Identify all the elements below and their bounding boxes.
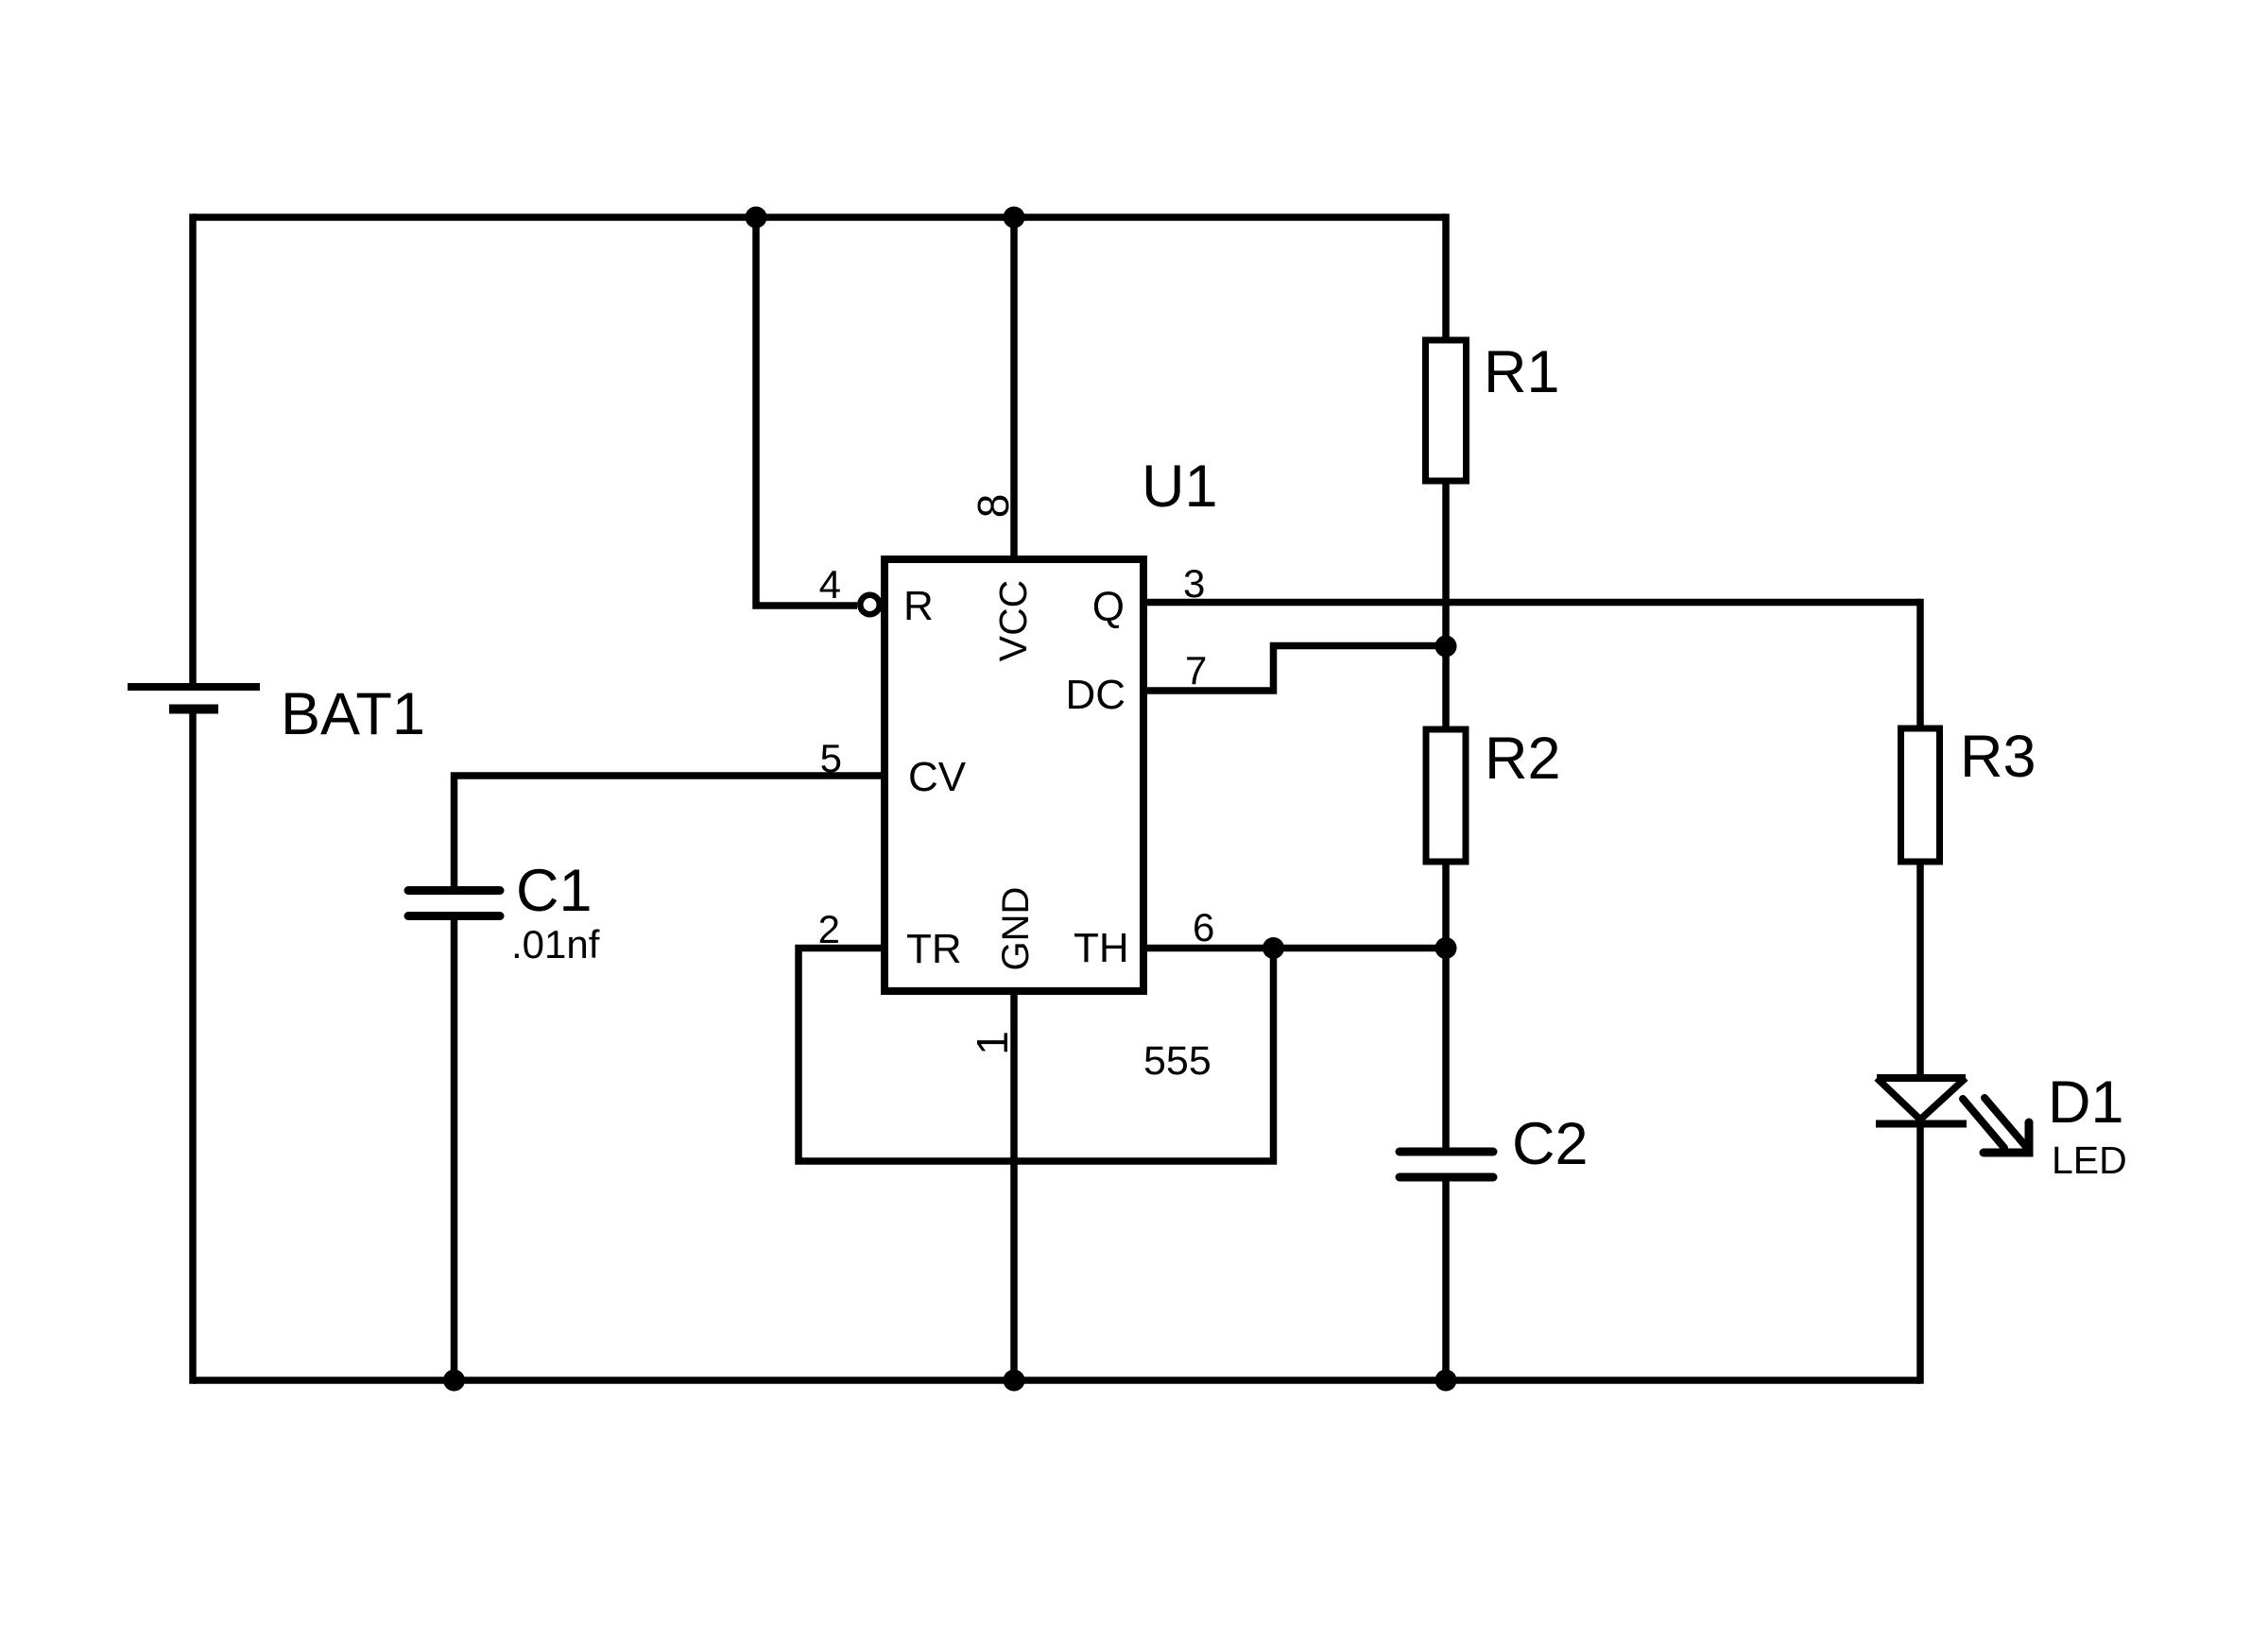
svg-text:C2: C2: [1512, 1111, 1589, 1177]
pin 4 inversion bubble: [860, 595, 879, 614]
svg-text:R3: R3: [1960, 724, 2036, 790]
wire TH node down to C2: [1442, 949, 1450, 1153]
wire Q pin 3 output: [1143, 599, 1920, 607]
wire LED cathode down to ground rail: [1916, 1124, 1924, 1384]
junction C1 / bottom rail: [443, 1370, 465, 1392]
capacitor C1: [408, 891, 500, 916]
wire left branch upper (battery positive): [189, 214, 197, 687]
wire bottom ground rail: [193, 1377, 1920, 1384]
svg-text:GND: GND: [995, 887, 1037, 971]
wire R1 bottom to node: [1442, 481, 1450, 646]
svg-text:TR: TR: [906, 926, 962, 972]
battery BAT1: [128, 687, 260, 710]
wire C2 bottom to ground rail: [1442, 1177, 1450, 1384]
svg-text:.01nf: .01nf: [511, 922, 600, 966]
junction C2 / bottom rail: [1435, 1370, 1457, 1392]
svg-text:Q: Q: [1092, 584, 1125, 630]
wire C1 bottom to ground rail: [451, 916, 458, 1384]
wire left branch lower (battery negative to ground rail): [189, 710, 197, 1384]
svg-text:6: 6: [1193, 905, 1214, 949]
junction TH / TR loop: [1263, 937, 1284, 959]
node R1/R2/pin7 junction: [1435, 636, 1457, 658]
svg-text:VCC: VCC: [991, 580, 1035, 662]
capacitor C2: [1400, 1152, 1493, 1177]
svg-text:DC: DC: [1065, 672, 1125, 718]
svg-text:R: R: [903, 583, 934, 629]
LED light arrow 2: [1984, 1098, 2028, 1149]
wire reset drop from top rail: [756, 217, 857, 606]
svg-text:LED: LED: [2052, 1138, 2127, 1182]
svg-text:BAT1: BAT1: [281, 681, 425, 747]
svg-text:R1: R1: [1484, 339, 1560, 405]
LED arrowhead bracket: [1984, 1122, 2029, 1153]
svg-text:4: 4: [819, 562, 841, 607]
op-amp U1 555 timer body: [885, 559, 1143, 991]
wire CV pin 5 to C1: [455, 772, 885, 890]
wire R2 bottom to TH node: [1442, 862, 1450, 949]
svg-text:555: 555: [1143, 1038, 1211, 1084]
resistor R1: [1426, 340, 1467, 481]
wire GND pin 1 drop: [1010, 991, 1018, 1384]
wire top rail corner down to R1: [1442, 214, 1450, 340]
wire top VCC rail: [193, 214, 1446, 221]
svg-text:8: 8: [969, 494, 1018, 519]
svg-text:CV: CV: [908, 754, 967, 800]
junction TH / R2 / C2: [1435, 937, 1457, 959]
junction VCC drop / top rail: [1004, 207, 1025, 229]
wire DC pin 7 stepped: [1143, 646, 1446, 692]
wire TH pin 6: [1143, 945, 1446, 952]
svg-text:TH: TH: [1074, 925, 1129, 971]
junction reset drop / top rail: [746, 207, 767, 229]
wire node to R2 top: [1442, 646, 1450, 729]
svg-text:U1: U1: [1142, 453, 1218, 520]
wire VCC pin 8 drop: [1010, 217, 1018, 559]
resistor R3: [1901, 728, 1940, 862]
wire TR pin 2 loop: [799, 949, 1274, 1162]
LED light arrow 1: [1963, 1099, 2004, 1148]
resistor R2: [1426, 729, 1466, 862]
svg-text:1: 1: [968, 1031, 1017, 1055]
junction GND drop / bottom rail: [1004, 1370, 1025, 1392]
svg-text:7: 7: [1185, 648, 1207, 693]
svg-text:C1: C1: [516, 858, 593, 924]
svg-text:D1: D1: [2048, 1069, 2124, 1136]
LED D1: [1876, 1078, 1967, 1124]
wire pin 3 down to R3: [1916, 599, 1924, 728]
svg-text:R2: R2: [1485, 726, 1561, 792]
wire R3 bottom to LED: [1916, 862, 1924, 1078]
